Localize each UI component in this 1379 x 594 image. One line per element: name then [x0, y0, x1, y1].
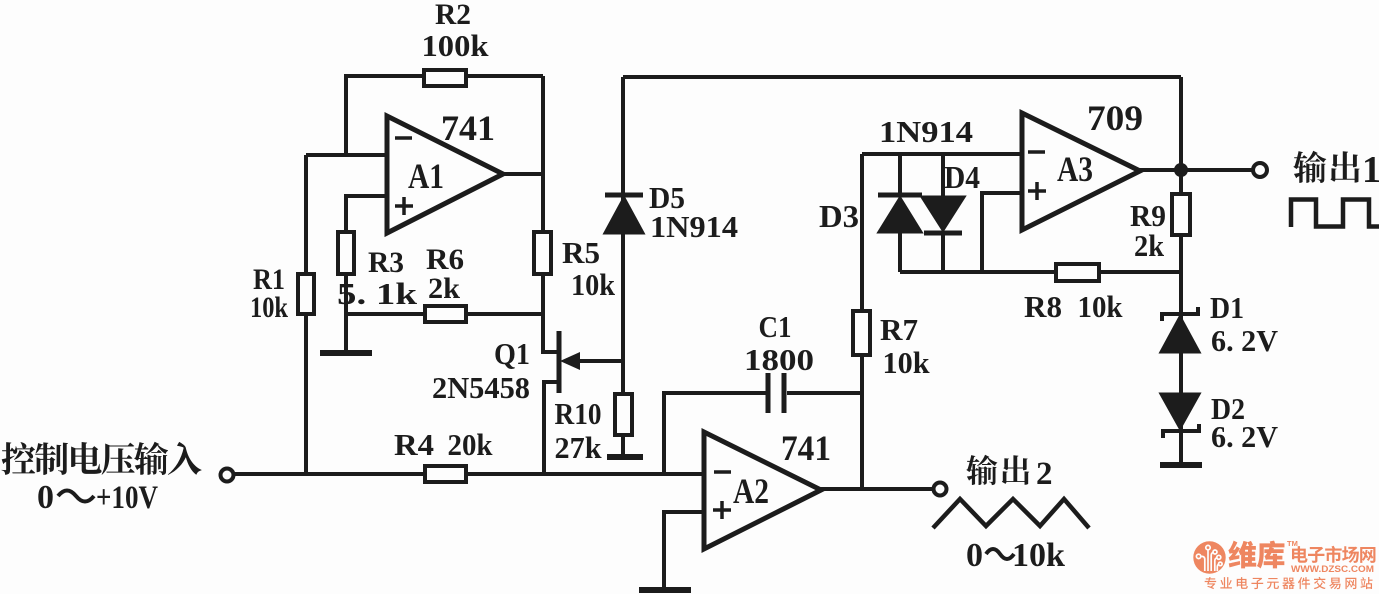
watermark slogan — [1205, 577, 1216, 589]
wire A3 inverting input — [862, 152, 1022, 156]
svg-text:20k: 20k — [448, 427, 494, 462]
op-amp A3 — [1022, 113, 1140, 230]
svg-text:D1: D1 — [1210, 290, 1244, 325]
svg-text:1800: 1800 — [744, 342, 814, 377]
wire R6 row — [346, 312, 545, 316]
svg-text:R10: R10 — [555, 396, 602, 431]
watermark wadku — [1228, 541, 1256, 569]
wire top feedback — [623, 75, 1181, 79]
wire R1 vertical — [304, 155, 308, 474]
diode D5 — [605, 195, 643, 233]
resistor R7 — [853, 311, 870, 355]
A1 plus — [395, 197, 413, 215]
svg-text:2: 2 — [1036, 456, 1053, 492]
transistor Q1 channel — [557, 331, 562, 393]
square wave symbol — [1291, 200, 1379, 228]
wire R2 loop right — [466, 74, 543, 78]
triangle wave symbol — [933, 499, 1089, 528]
svg-text:2k: 2k — [428, 272, 460, 305]
resistor R6 — [425, 306, 466, 322]
op-amp A2 — [704, 432, 821, 549]
svg-text:R5: R5 — [562, 235, 600, 270]
wire D4 bottom stem — [941, 233, 945, 272]
svg-text:10k: 10k — [883, 345, 931, 380]
svg-text:Q1: Q1 — [494, 336, 530, 371]
resistor R2 — [424, 70, 466, 86]
wire A3 inv / R7 vertical — [860, 154, 864, 489]
diode D4 — [922, 197, 964, 233]
svg-text:6. 2V: 6. 2V — [1211, 419, 1279, 454]
svg-text:0: 0 — [966, 537, 983, 574]
output1 terminal — [1253, 163, 1267, 177]
A3 minus — [1028, 150, 1045, 154]
diode D2 — [1161, 394, 1199, 438]
diode D1 — [1161, 307, 1199, 352]
wire D4 top stem — [941, 154, 945, 197]
watermark logo circle — [1193, 541, 1225, 573]
svg-text:A1: A1 — [408, 156, 444, 196]
wire A2 noninverting input — [664, 512, 704, 589]
svg-text:709: 709 — [1087, 98, 1143, 138]
wire R3 bottom — [344, 274, 348, 352]
wire D5 vertical — [621, 77, 625, 394]
svg-text:D4: D4 — [944, 159, 980, 195]
wire A3 noninverting branch — [982, 193, 1022, 272]
ground under R3 — [320, 350, 372, 356]
capacitor C1 — [768, 373, 784, 413]
wire zener chain — [1179, 272, 1183, 464]
svg-text:A3: A3 — [1057, 149, 1093, 189]
svg-text:741: 741 — [441, 108, 495, 148]
svg-text:R8: R8 — [1024, 289, 1062, 324]
label output1 — [1293, 151, 1326, 183]
svg-text:741: 741 — [781, 428, 831, 468]
svg-text:1N914: 1N914 — [879, 114, 973, 149]
resistor R10 — [615, 394, 632, 435]
svg-text:10k: 10k — [250, 291, 288, 324]
svg-text:10k: 10k — [571, 267, 616, 302]
wire R2 loop left — [346, 76, 425, 155]
wire Q1 gate — [568, 359, 623, 363]
resistor R8 — [1056, 264, 1099, 281]
wire Q1 source — [544, 382, 559, 474]
wire main input line — [234, 472, 705, 476]
ground under A2 — [639, 587, 691, 593]
resistor R4 — [425, 466, 466, 482]
wire D3 top stem — [898, 154, 902, 195]
svg-text:10k: 10k — [1078, 289, 1124, 324]
svg-text:R7: R7 — [880, 312, 918, 347]
label control voltage input — [2, 442, 36, 475]
resistor R9 — [1172, 194, 1190, 235]
wire output A1 / R5 chain — [543, 76, 559, 352]
svg-text:+10V: +10V — [96, 480, 158, 516]
svg-text:1N914: 1N914 — [650, 209, 738, 244]
label output2 — [966, 455, 997, 485]
wire A1 inverting input — [306, 153, 387, 157]
input terminal — [221, 469, 234, 482]
svg-text:100k: 100k — [422, 28, 490, 63]
wire A1 noninverting input — [346, 196, 387, 233]
wire R9 vertical — [1179, 170, 1183, 272]
watermark site name — [1292, 546, 1308, 563]
wire C1 right — [787, 391, 862, 395]
svg-text:R2: R2 — [435, 0, 471, 31]
A2 minus — [714, 470, 731, 474]
wire A3 output — [1139, 168, 1253, 172]
wire Q1 drain stub — [543, 350, 559, 354]
node A3 output junction — [1174, 163, 1188, 177]
svg-text:2k: 2k — [1134, 228, 1165, 263]
Q1 gate arrow — [560, 352, 580, 370]
wire D3 bottom stem — [898, 232, 902, 272]
ground under D2 — [1160, 462, 1202, 468]
A3 plus — [1028, 182, 1046, 200]
svg-text:6. 2V: 6. 2V — [1211, 323, 1279, 358]
wire C1 branch up — [664, 393, 766, 474]
svg-text:0: 0 — [37, 479, 54, 516]
op-amp A1 — [387, 116, 503, 233]
svg-text:A2: A2 — [733, 471, 769, 511]
svg-text:R4: R4 — [394, 427, 434, 462]
svg-text:TM: TM — [1287, 539, 1298, 548]
resistor R1 — [298, 274, 314, 314]
svg-text:WWW.DZSC.COM: WWW.DZSC.COM — [1291, 564, 1374, 574]
A2 plus — [713, 501, 731, 519]
resistor R5 — [534, 232, 551, 274]
svg-text:R3: R3 — [368, 246, 404, 279]
wire A3 top vertical — [1179, 77, 1183, 170]
diode D3 — [878, 195, 922, 232]
svg-text:10k: 10k — [1012, 537, 1065, 574]
svg-text:1: 1 — [1362, 149, 1379, 191]
wire A1 output — [501, 172, 543, 176]
svg-text:5. 1k: 5. 1k — [337, 276, 418, 311]
wire R10 bottom — [621, 435, 625, 456]
wire clamp bottom row — [900, 270, 1181, 274]
svg-text:D3: D3 — [819, 198, 859, 234]
svg-text:C1: C1 — [759, 309, 792, 344]
ground under R10 — [607, 454, 643, 460]
svg-text:2N5458: 2N5458 — [432, 370, 530, 405]
wire A2 output — [819, 487, 934, 491]
resistor R3 — [338, 232, 354, 274]
output2 terminal — [934, 483, 947, 496]
svg-text:27k: 27k — [555, 430, 603, 465]
A1 minus — [395, 136, 412, 140]
